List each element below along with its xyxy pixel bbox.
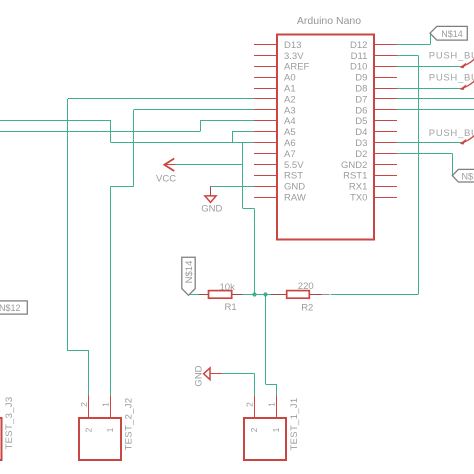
svg-text:GND: GND <box>194 365 205 386</box>
svg-text:TEST_1_J1: TEST_1_J1 <box>289 398 300 451</box>
svg-text:TEST_3_J3: TEST_3_J3 <box>4 397 15 450</box>
svg-text:Arduino Nano: Arduino Nano <box>297 15 361 27</box>
svg-text:3.3V: 3.3V <box>284 51 304 62</box>
svg-text:D9: D9 <box>355 73 367 84</box>
svg-text:R1: R1 <box>225 302 237 313</box>
svg-text:TEST_2_J2: TEST_2_J2 <box>124 398 135 451</box>
svg-text:A2: A2 <box>284 94 296 105</box>
svg-text:A1: A1 <box>284 84 296 95</box>
svg-text:R2: R2 <box>301 302 313 313</box>
svg-text:A6: A6 <box>284 138 296 149</box>
svg-text:1: 1 <box>266 402 276 407</box>
svg-text:D10: D10 <box>350 62 367 73</box>
svg-text:PUSH_BUT: PUSH_BUT <box>429 73 474 84</box>
svg-text:D12: D12 <box>350 40 367 51</box>
svg-text:RST: RST <box>284 171 303 182</box>
svg-text:GND: GND <box>201 204 222 215</box>
svg-text:A3: A3 <box>284 105 296 116</box>
svg-text:D2: D2 <box>355 149 367 160</box>
svg-text:RAW: RAW <box>284 193 306 204</box>
svg-text:D7: D7 <box>355 94 367 105</box>
svg-text:D6: D6 <box>355 105 367 116</box>
svg-text:GND: GND <box>284 182 305 193</box>
svg-text:D3: D3 <box>355 138 367 149</box>
svg-text:N$14: N$14 <box>184 261 195 284</box>
svg-text:N$14: N$14 <box>441 29 463 39</box>
svg-text:5.5V: 5.5V <box>284 160 304 171</box>
svg-text:RX1: RX1 <box>349 182 367 193</box>
svg-text:2: 2 <box>84 427 94 432</box>
svg-text:D5: D5 <box>355 116 367 127</box>
svg-text:1: 1 <box>105 427 115 432</box>
svg-text:N$12: N$12 <box>0 303 21 313</box>
svg-text:AREF: AREF <box>284 62 310 73</box>
svg-text:GND2: GND2 <box>341 160 367 171</box>
svg-text:A5: A5 <box>284 127 296 138</box>
svg-text:N$15: N$15 <box>462 172 474 182</box>
svg-text:RST1: RST1 <box>343 171 367 182</box>
svg-text:1: 1 <box>100 402 110 407</box>
svg-text:D4: D4 <box>355 127 367 138</box>
svg-text:D11: D11 <box>351 51 368 62</box>
svg-text:A4: A4 <box>284 116 296 127</box>
svg-text:D13: D13 <box>284 40 301 51</box>
svg-text:2: 2 <box>244 402 254 407</box>
svg-text:220: 220 <box>298 281 314 292</box>
svg-text:10k: 10k <box>220 282 236 293</box>
svg-text:VCC: VCC <box>156 174 176 185</box>
svg-text:2: 2 <box>249 427 259 432</box>
svg-text:1: 1 <box>271 427 281 432</box>
svg-text:2: 2 <box>79 402 89 407</box>
svg-text:PUSH_BUT: PUSH_BUT <box>429 128 474 139</box>
svg-text:A0: A0 <box>284 73 296 84</box>
svg-text:A7: A7 <box>284 149 296 160</box>
svg-text:D8: D8 <box>355 84 367 95</box>
svg-text:TX0: TX0 <box>350 193 367 204</box>
svg-text:PUSH_BUT: PUSH_BUT <box>429 51 474 62</box>
